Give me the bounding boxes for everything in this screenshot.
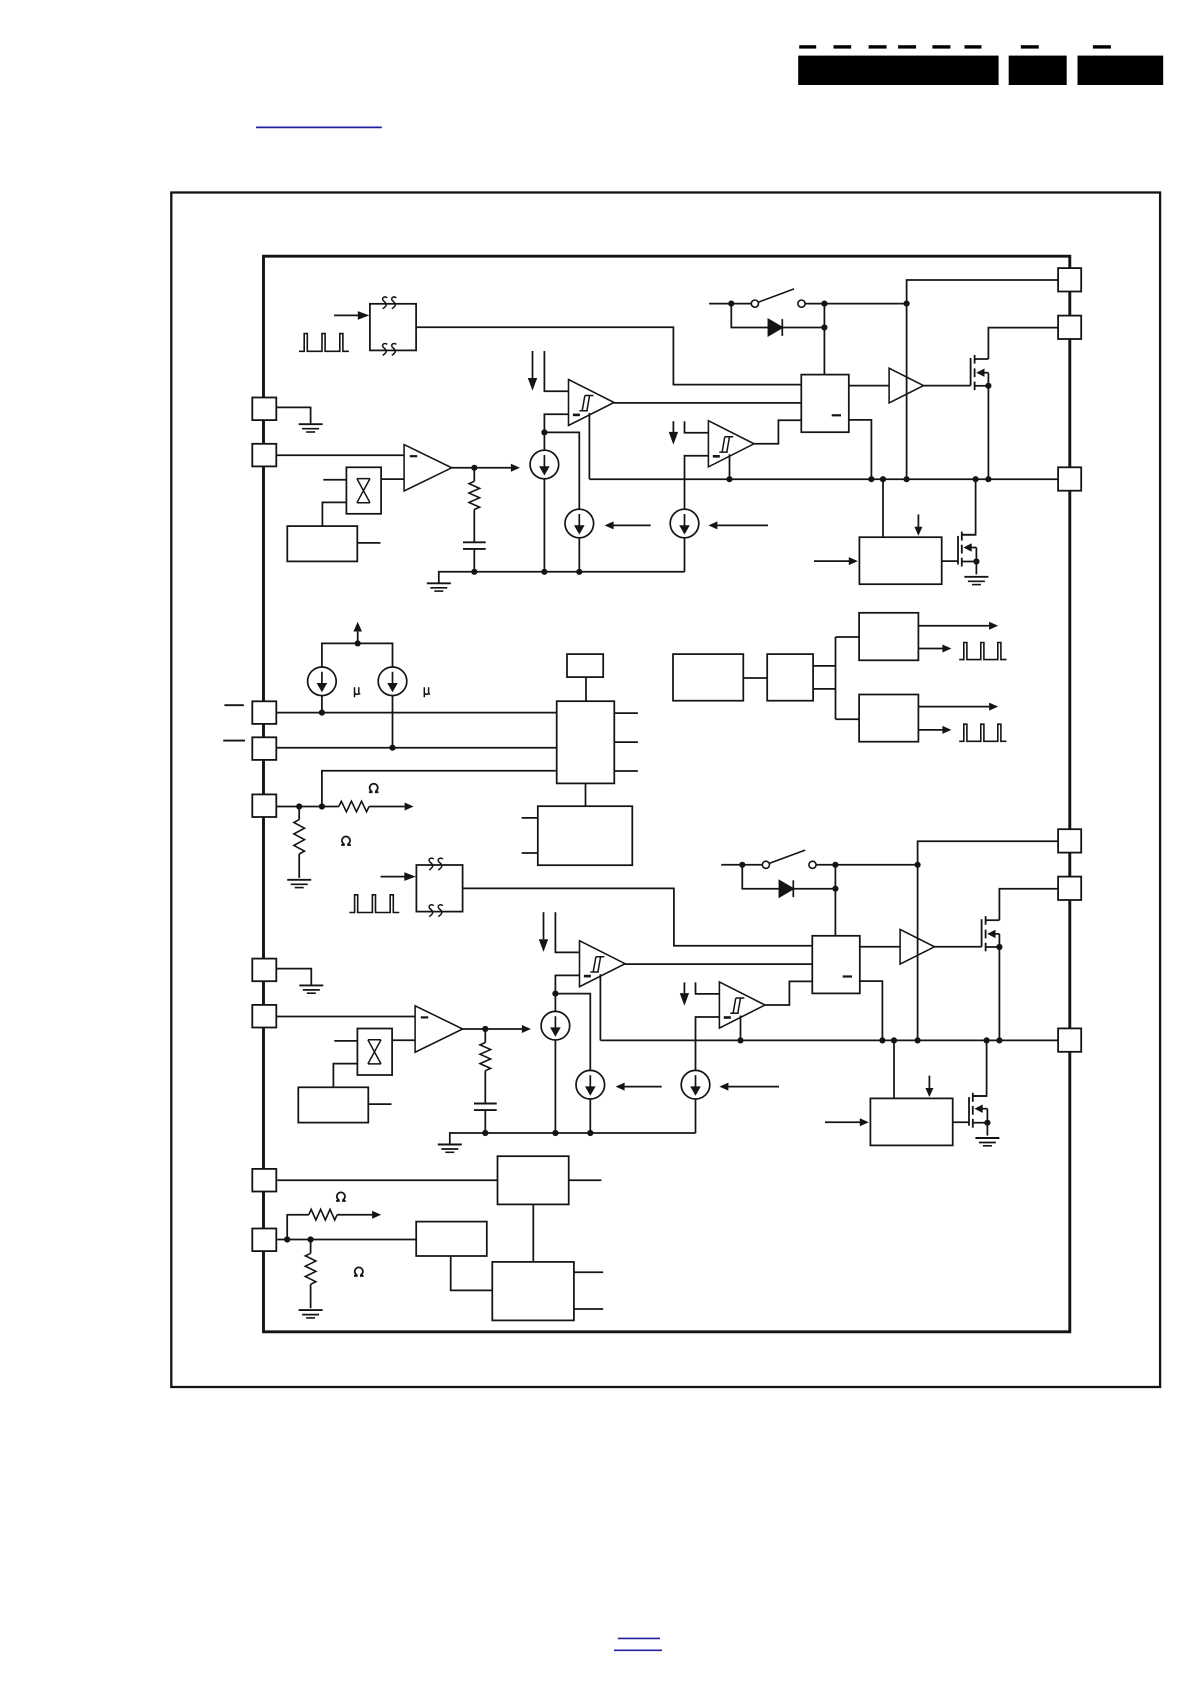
wire: input node down to current source I1A bbox=[543, 432, 545, 450]
arrow: trim current into I2B bbox=[616, 1083, 662, 1091]
wire: feedback pin to error amplifier (ch2) bbox=[276, 1016, 415, 1018]
comparator with hysteresis B1 bbox=[708, 421, 754, 467]
oscillator frequency-modulation block OSC2 bbox=[416, 858, 462, 916]
junction dot on ground rail (ch1) bbox=[576, 569, 582, 575]
junction dot on ground rail (ch2) bbox=[587, 1130, 593, 1136]
wire: latch inverted output to sense bus (ch1) bbox=[849, 420, 872, 479]
OSC1 input signal arrow bbox=[334, 311, 369, 320]
junction dot sense node A bbox=[296, 803, 302, 809]
junction dot on ground rail (ch2 left) bbox=[552, 1130, 558, 1136]
pin box P2 (feedback ch1) bbox=[252, 444, 276, 467]
control logic block CL bbox=[557, 701, 615, 783]
sense series resistor R1 with output arrow bbox=[322, 801, 414, 812]
gate driver buffer U2 bbox=[900, 929, 934, 964]
current source I2A bbox=[541, 1011, 570, 1040]
wire: supervisor stub 2 bbox=[522, 852, 538, 854]
junction dot switch left (ch1) bbox=[728, 301, 734, 307]
value label (uA) for Iu1 bbox=[355, 687, 361, 697]
signal-direction arrow at comparator B1 input bbox=[669, 421, 678, 444]
arrow: PH1 output 2 (clock) bbox=[918, 645, 951, 653]
wire: current source I2C to ground rail corner bbox=[695, 1099, 697, 1133]
pin box P3 (demag) bbox=[252, 701, 276, 724]
pulse waveform symbol at OSC1 input bbox=[299, 334, 349, 352]
junction dot capacitor to ground rail (ch2) bbox=[482, 1130, 488, 1136]
current source I2B (ramp charge) bbox=[576, 1070, 605, 1099]
bandgap block BG1 bbox=[287, 526, 357, 561]
wire: comparator A2 feedback down to sense bus bbox=[599, 974, 601, 1040]
junction dot pulldown drain on sense bus (ch1) bbox=[973, 476, 979, 482]
junction dot latch on sense bus (ch1) bbox=[868, 476, 874, 482]
wire: switch node down to PWM latch (ch1) bbox=[823, 304, 825, 375]
junction dot comparator B1 on sense bus bbox=[726, 476, 732, 482]
diode D2 bbox=[742, 865, 835, 897]
IC boundary bbox=[264, 256, 1070, 1332]
arrow: PH1 output 1 bbox=[918, 622, 998, 630]
pin label leader (P3) bbox=[224, 704, 243, 706]
wire: level shifter to logic block bbox=[532, 1204, 534, 1262]
wire: MOSFET T1 drain to output pin bbox=[988, 328, 1058, 359]
wire+arrow: error amp output to current source I2A bbox=[463, 1025, 531, 1033]
wire: demag pin to control logic bbox=[276, 712, 556, 714]
select series resistor R3 with output arrow bbox=[287, 1209, 381, 1239]
junction dot latch on sense bus (ch2) bbox=[879, 1037, 885, 1043]
protection block PR1 bbox=[859, 537, 941, 584]
value label (kOhm) for R2 bbox=[341, 837, 351, 845]
junction dot select node B bbox=[308, 1236, 314, 1242]
wire: standby logic stub 1 bbox=[574, 1271, 603, 1273]
oscillator frequency-modulation block OSC1 bbox=[370, 297, 416, 355]
wire: sense bus into protection block (ch2) bbox=[893, 1040, 895, 1098]
power MOSFET T1 bbox=[971, 355, 992, 390]
wire: pulldown MOSFET source to ground (ch1) bbox=[975, 562, 977, 575]
ground (pulldown MOSFET ch2) bbox=[975, 1138, 999, 1146]
wire: current source I1B to ground rail bbox=[578, 538, 580, 572]
ground (select shunt) bbox=[299, 1310, 323, 1318]
power MOSFET T2 bbox=[982, 916, 1003, 951]
enable switch S2 bbox=[721, 850, 917, 868]
current source I1A bbox=[530, 450, 559, 479]
pin box Q5 (drain ch2) bbox=[1058, 877, 1081, 900]
wire: ground pin stub (ch1) bbox=[276, 407, 310, 424]
PWM latch FF2 bbox=[812, 936, 860, 994]
wire: resistor to capacitor (ch2) bbox=[484, 1071, 486, 1104]
junction dot MOSFET source on sense bus (ch1) bbox=[985, 476, 991, 482]
enable switch S1 bbox=[709, 289, 907, 307]
value label (kOhm) for R3 bbox=[336, 1192, 346, 1200]
pin box Q1 (supply ch1) bbox=[1058, 268, 1081, 291]
wire: Iu2 to sync pin net bbox=[392, 696, 394, 748]
wire: sense pin to resistor node bbox=[276, 806, 322, 808]
junction dot Iu2 on pin net bbox=[389, 745, 395, 751]
figure frame bbox=[171, 193, 1160, 1388]
pin box Q4 (supply ch2) bbox=[1058, 829, 1081, 852]
pulldown MOSFET T2b bbox=[969, 1093, 991, 1128]
junction dot select node A bbox=[284, 1236, 290, 1242]
wire: comparator A1 output to PWM latch bbox=[614, 402, 801, 404]
junction dot capacitor to ground rail (ch1) bbox=[471, 569, 477, 575]
wire: latch inverted output to sense bus (ch2) bbox=[860, 981, 883, 1040]
junction dot sense node B bbox=[319, 803, 325, 809]
junction dot supply rail on sense bus (ch2) bbox=[915, 1037, 921, 1043]
wire+arrow: error amp output to current source I1A bbox=[452, 464, 520, 472]
current source Iu2 (3 uA) bbox=[378, 667, 407, 696]
ground rail (ch1) bbox=[439, 572, 685, 584]
junction dot diode cathode (ch1) bbox=[821, 324, 827, 330]
signal-direction arrow at comparator input (ch2) bbox=[539, 912, 548, 952]
wire: comparator B1 inverting input to current source I1C bbox=[685, 456, 709, 510]
wire: switch node down to PWM latch (ch2) bbox=[834, 865, 836, 936]
signal-direction arrow at comparator input (ch1) bbox=[528, 351, 537, 391]
page redaction bar (page id blacked out) bbox=[1078, 56, 1164, 85]
arrow: protection enable input (ch1) bbox=[814, 557, 858, 565]
wire: standby logic stub 2 bbox=[574, 1308, 603, 1310]
arrow: PH2 output 2 (clock) bbox=[918, 726, 951, 734]
comparator with hysteresis A2 bbox=[580, 941, 626, 987]
ground (pin, ch2) bbox=[299, 985, 323, 993]
wire: supply pin rail (ch1) bbox=[907, 280, 1059, 479]
pin box P4 (sync) bbox=[252, 737, 276, 760]
wire: feedback pin to error amplifier (ch1) bbox=[276, 454, 404, 456]
pin box P7 (feedback ch2) bbox=[252, 1005, 276, 1028]
junction dot switch right (ch1) bbox=[821, 301, 827, 307]
wire: bandgap to reference block (ch2) bbox=[333, 1064, 357, 1088]
junction dot on mirror tee bbox=[355, 640, 361, 646]
op-amp error amplifier E1 bbox=[404, 445, 452, 491]
value label (kOhm) for R4 bbox=[354, 1267, 364, 1275]
junction dot at error amp output (ch1) bbox=[471, 465, 477, 471]
PWM latch FF1 bbox=[801, 375, 849, 433]
wire: bandgap to reference block (ch1) bbox=[322, 502, 346, 526]
junction dot switch left (ch2) bbox=[739, 862, 745, 868]
ground (pin, ch1) bbox=[299, 424, 323, 432]
wire: level shifter stub bbox=[569, 1179, 602, 1181]
sense bus net CS2 bbox=[600, 1039, 1058, 1041]
wire: sense bus into protection block (ch1) bbox=[882, 479, 884, 537]
pin box Q2 (drain ch1) bbox=[1058, 316, 1081, 339]
wire: select pin to detector bbox=[277, 1239, 416, 1241]
wire: reference block to error amplifier (ch1) bbox=[381, 478, 404, 480]
wire: current source I2A to ground rail bbox=[554, 1040, 556, 1133]
standby logic block SL bbox=[492, 1262, 574, 1321]
pulse waveform symbol at PH2 clock bbox=[959, 724, 1006, 741]
pin box Q3 (source/sense ch1) bbox=[1058, 467, 1081, 490]
pin box P1 (ground ch1) bbox=[252, 398, 276, 421]
junction dot at driver rail (ch1) bbox=[904, 301, 910, 307]
wire: comparator A2 inverting input bbox=[555, 975, 579, 993]
wire: protection block to pulldown MOSFET gate (ch2) bbox=[953, 1121, 969, 1123]
current source Iu1 (3 uA) bbox=[308, 667, 337, 696]
current source I1B (ramp charge) bbox=[565, 509, 594, 538]
compensation capacitor C2c bbox=[474, 1104, 497, 1134]
wire: reference into comparator top input (ch2) bbox=[555, 912, 579, 952]
arrow: protection enable input (ch2) bbox=[825, 1118, 869, 1126]
wire: MOSFET T1 source to sense bus bbox=[987, 386, 989, 479]
pulse waveform symbol at PH1 clock bbox=[959, 643, 1006, 660]
compensation resistor R2c bbox=[480, 1029, 491, 1071]
phase generator block PH2 bbox=[859, 695, 918, 742]
wire: driver output to MOSFET gate (ch1) bbox=[924, 385, 971, 387]
detector block DET bbox=[416, 1222, 487, 1256]
junction dot protection tap on sense bus (ch2) bbox=[891, 1037, 897, 1043]
junction dot comparator B2 on sense bus bbox=[737, 1037, 743, 1043]
wire: supervisor stub 1 bbox=[522, 817, 538, 819]
arrow: PH2 output 1 bbox=[918, 703, 998, 711]
bandgap block BG2 bbox=[298, 1087, 368, 1122]
page redaction bar (title text blacked out) bbox=[798, 56, 998, 85]
wire: comparator B2 inverting input to current source I2C bbox=[696, 1017, 720, 1071]
junction dot Iu1 on pin net bbox=[319, 710, 325, 716]
wire: sync pin to control logic bbox=[276, 747, 556, 749]
voltage reference block VR2 bbox=[357, 1029, 392, 1076]
wire: resistor to capacitor (ch1) bbox=[473, 510, 475, 543]
wire: stub at bandgap right (ch1) bbox=[357, 542, 380, 544]
wire: control logic stub 1 bbox=[614, 712, 638, 714]
wire: input node down to current source I2A bbox=[554, 994, 556, 1012]
junction dot diode cathode (ch2) bbox=[832, 886, 838, 892]
wire: input node to ramp current source branch (ch1) bbox=[544, 432, 579, 509]
junction dot at driver rail (ch2) bbox=[915, 862, 921, 868]
wire: standby pin to level shifter bbox=[277, 1179, 497, 1181]
select shunt resistor R4 bbox=[305, 1240, 316, 1309]
wire: MOSFET T2 source to sense bus bbox=[998, 947, 1000, 1040]
wire: oscillator to divider bbox=[743, 677, 767, 679]
arrow: trim current into I1B bbox=[605, 521, 651, 529]
wire: latch output to gate driver (ch1) bbox=[849, 385, 889, 387]
ground (ch1 rail) bbox=[427, 583, 451, 591]
wire: pulldown MOSFET drain to sense bus (ch2) bbox=[973, 1040, 987, 1096]
current source I2C bbox=[681, 1070, 710, 1099]
wire: current source I1A to ground rail bbox=[543, 479, 545, 572]
supervisor block SV bbox=[538, 806, 633, 865]
ground (ch2 rail) bbox=[438, 1145, 462, 1153]
wire: OSC1 output to PWM latch set input bbox=[416, 327, 801, 384]
wire: current source I1C to ground rail corner bbox=[684, 538, 686, 572]
sense bus net CS1 bbox=[589, 478, 1058, 480]
wire: reference into comparator top input (ch1) bbox=[544, 351, 568, 391]
value label (kOhm) for R1 bbox=[369, 784, 379, 792]
diode D1 bbox=[731, 304, 824, 336]
wire: reference into comparator B2 top input bbox=[696, 982, 720, 994]
current source I1C bbox=[670, 509, 699, 538]
op-amp error amplifier E2 bbox=[415, 1006, 463, 1052]
wire: comparator A1 inverting input bbox=[544, 414, 568, 432]
pulldown MOSFET T1b bbox=[958, 532, 980, 567]
junction dot switch right (ch2) bbox=[832, 862, 838, 868]
wire: detector to logic block bbox=[451, 1256, 493, 1290]
pin box P9 (select) bbox=[252, 1229, 276, 1252]
signal-direction arrow at comparator B2 input bbox=[680, 982, 689, 1005]
wire: ground pin stub (ch2) bbox=[276, 969, 311, 986]
ground rail (ch2) bbox=[450, 1133, 696, 1145]
redacted text remnants above bars bbox=[799, 45, 1111, 48]
junction dot protection tap on sense bus (ch1) bbox=[880, 476, 886, 482]
wire: sense node up to control logic bbox=[322, 771, 557, 807]
wire: control logic to supervisor bbox=[585, 783, 587, 806]
wire: comparator B2 output to PWM latch bbox=[765, 981, 812, 1005]
wire: input node to ramp current source branch (ch2) bbox=[555, 994, 590, 1071]
wire: control logic stub 3 bbox=[614, 770, 638, 772]
compensation resistor R1c bbox=[469, 468, 480, 510]
pin box P8 (standby) bbox=[252, 1169, 276, 1192]
signal-direction arrow into protection block (ch1) bbox=[914, 514, 922, 535]
wire: comparator A1 feedback down to sense bus bbox=[588, 413, 590, 479]
wire: current source I2B to ground rail bbox=[589, 1099, 591, 1133]
ground (sense shunt) bbox=[287, 880, 311, 888]
hyperlink underline (footer 1) bbox=[618, 1637, 660, 1639]
wire: Iu1 to demag pin net bbox=[321, 696, 323, 713]
wire: driver output to MOSFET gate (ch2) bbox=[935, 946, 982, 948]
hyperlink underline (footer 2) bbox=[614, 1649, 662, 1651]
page redaction bar (document number blacked out) bbox=[1009, 56, 1067, 85]
pulse waveform symbol at OSC2 input bbox=[349, 895, 399, 913]
ground (pulldown MOSFET ch1) bbox=[964, 577, 988, 585]
junction dot at error amp output (ch2) bbox=[482, 1026, 488, 1032]
OSC2 input signal arrow bbox=[381, 872, 416, 881]
pin label leader (P4) bbox=[223, 740, 245, 742]
sense shunt resistor R2 bbox=[294, 807, 305, 878]
protection block PR2 bbox=[870, 1098, 952, 1145]
hyperlink underline (top left) bbox=[256, 126, 382, 128]
voltage reference block VR1 bbox=[346, 467, 381, 514]
level shifter block LS bbox=[498, 1156, 569, 1204]
wire: comparator B2 feedback to sense bus bbox=[740, 1016, 742, 1041]
pin box P5 (sense) bbox=[252, 794, 276, 817]
wire: protection block to pulldown MOSFET gate (ch1) bbox=[942, 560, 958, 562]
pin box P6 (ground ch2) bbox=[252, 959, 276, 982]
wire: control logic stub 2 bbox=[614, 741, 638, 743]
junction dot on ground rail (ch1 left) bbox=[541, 569, 547, 575]
wire: supply pin rail (ch2) bbox=[918, 841, 1059, 1040]
compensation capacitor C1c bbox=[463, 542, 486, 572]
wire: stub at reference block top-left (ch1) bbox=[323, 479, 346, 481]
wire: reference block to error amplifier (ch2) bbox=[392, 1039, 415, 1041]
wire: pulldown MOSFET source to ground (ch2) bbox=[986, 1123, 988, 1136]
oscillator master block OSC bbox=[673, 654, 743, 701]
pin box Q6 (source/sense ch2) bbox=[1058, 1028, 1081, 1051]
wire: reference into comparator B1 top input bbox=[685, 421, 709, 433]
divider block DIV bbox=[767, 654, 813, 701]
junction dot (ch2 comparator input node) bbox=[552, 991, 558, 997]
wire: mode box to control logic bbox=[585, 677, 587, 701]
comparator with hysteresis B2 bbox=[719, 982, 765, 1028]
wire: latch output to gate driver (ch2) bbox=[860, 946, 900, 948]
gate driver buffer U1 bbox=[889, 368, 923, 403]
wire: current mirror tee bbox=[322, 643, 393, 667]
mode select box above control logic bbox=[567, 654, 603, 677]
wire: divider to phase splitters bbox=[813, 637, 859, 719]
wire: MOSFET T2 drain to output pin bbox=[999, 889, 1058, 920]
junction dot pulldown drain on sense bus (ch2) bbox=[984, 1037, 990, 1043]
junction dot supply rail on sense bus (ch1) bbox=[904, 476, 910, 482]
phase generator block PH1 bbox=[859, 613, 918, 661]
comparator with hysteresis A1 bbox=[569, 380, 615, 426]
arrow: supply current up bbox=[353, 622, 362, 644]
wire: comparator B1 feedback to sense bus bbox=[729, 454, 731, 479]
wire: stub at reference block top-left (ch2) bbox=[334, 1040, 357, 1042]
arrow: trim current into I2C bbox=[719, 1083, 779, 1091]
wire: OSC2 output to PWM latch set input bbox=[463, 888, 813, 945]
signal-direction arrow into protection block (ch2) bbox=[925, 1076, 933, 1097]
wire: stub at bandgap right (ch2) bbox=[368, 1103, 391, 1105]
wire: comparator A2 output to PWM latch bbox=[625, 963, 812, 965]
wire: pulldown MOSFET drain to sense bus (ch1) bbox=[962, 479, 976, 535]
wire: comparator B1 output to PWM latch bbox=[754, 420, 801, 444]
junction dot (ch1 comparator input node) bbox=[541, 429, 547, 435]
value label (uA) for Iu2 bbox=[424, 687, 430, 697]
junction dot MOSFET source on sense bus (ch2) bbox=[996, 1037, 1002, 1043]
arrow: trim current into I1C bbox=[708, 521, 768, 529]
